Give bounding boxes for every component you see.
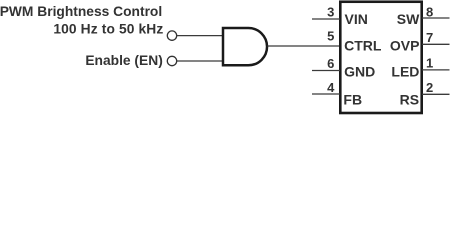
pin 3 stub (VIN)	[312, 18, 340, 20]
svg-text:SW: SW	[397, 11, 420, 27]
svg-text:FB: FB	[343, 92, 362, 108]
pin 6 stub (GND)	[312, 70, 340, 72]
svg-text:3: 3	[327, 5, 334, 20]
AND gate U1	[223, 28, 267, 65]
svg-text:1: 1	[426, 56, 433, 71]
pin 1 stub (LED)	[422, 69, 450, 71]
pin 8 stub (SW)	[422, 17, 450, 19]
svg-text:GND: GND	[344, 64, 375, 80]
wire AND gate output to CTRL pin 5	[268, 45, 341, 47]
svg-text:Enable (EN): Enable (EN)	[85, 53, 162, 68]
wire EN terminal to AND gate input B	[177, 60, 224, 62]
svg-text:100 Hz to 50 kHz: 100 Hz to 50 kHz	[53, 22, 163, 37]
svg-text:LED: LED	[391, 64, 419, 80]
wire PWM terminal to AND gate input A	[177, 35, 224, 37]
svg-text:2: 2	[426, 80, 433, 95]
svg-text:PWM Brightness Control: PWM Brightness Control	[0, 4, 162, 19]
svg-text:VIN: VIN	[345, 11, 368, 27]
svg-text:8: 8	[426, 4, 433, 19]
svg-text:7: 7	[426, 30, 433, 45]
svg-text:6: 6	[327, 56, 334, 71]
node: PWM input terminal	[167, 31, 176, 40]
svg-text:OVP: OVP	[390, 38, 420, 54]
svg-text:5: 5	[327, 28, 334, 43]
node: EN input terminal	[167, 56, 176, 65]
pin 4 stub (FB)	[312, 93, 340, 95]
svg-text:CTRL: CTRL	[344, 38, 382, 54]
pin 2 stub (RS)	[422, 93, 450, 95]
svg-text:4: 4	[327, 80, 335, 95]
svg-text:RS: RS	[400, 92, 419, 108]
IC U2 (LED driver)	[340, 2, 421, 113]
pin 7 stub (OVP)	[422, 43, 450, 45]
